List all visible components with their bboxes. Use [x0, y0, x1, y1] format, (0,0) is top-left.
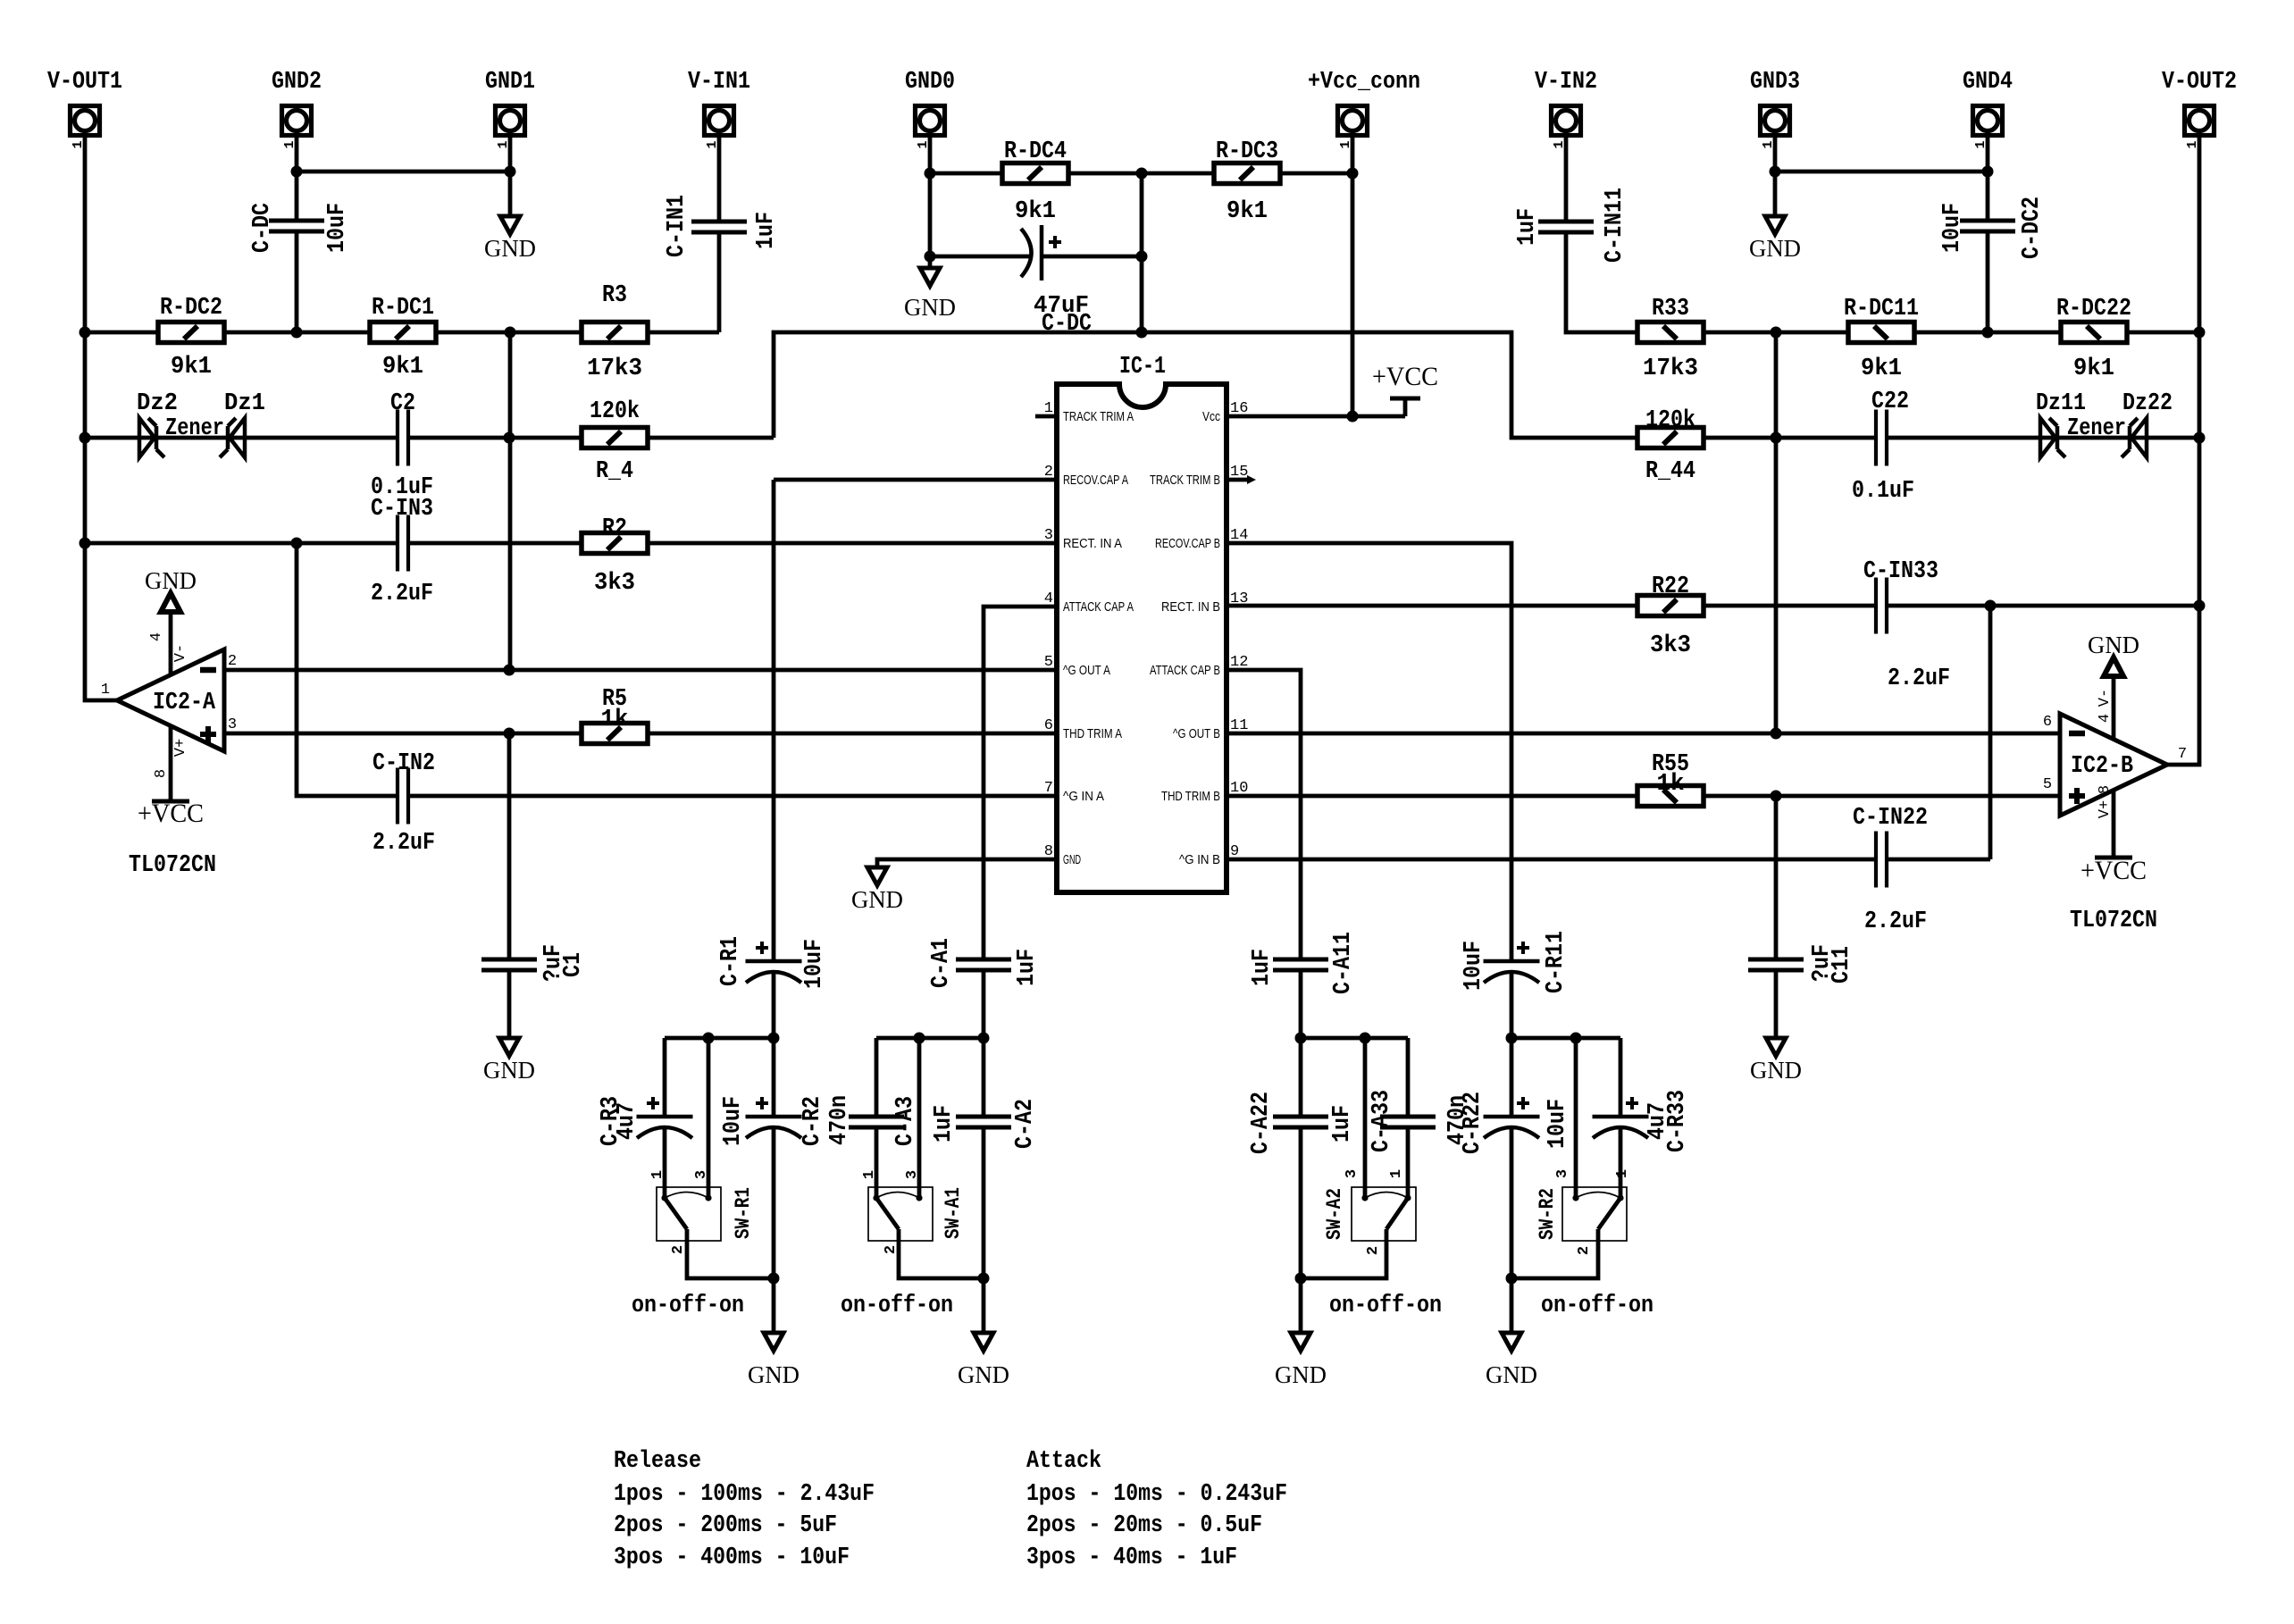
svg-text:R-DC1: R-DC1	[372, 295, 434, 322]
junction at 1278,372	[1136, 327, 1148, 339]
label Zener right	[2067, 415, 2126, 442]
note Attack 1pos	[1026, 1481, 1287, 1508]
label R-DC1	[372, 295, 434, 322]
capacitor C-A22	[1273, 1117, 1328, 1127]
wire zener row right	[1887, 436, 2199, 440]
value R-DC11	[1861, 356, 1902, 382]
svg-text:3: 3	[1044, 527, 1053, 544]
pin 1 SW-R2	[1614, 1169, 1631, 1178]
svg-text:2: 2	[883, 1245, 900, 1254]
wire SW-R2 top row	[1511, 1036, 1620, 1041]
svg-text:SW-A2: SW-A2	[1323, 1188, 1346, 1240]
ground pin8	[851, 867, 903, 913]
svg-text:TRACK TRIM A: TRACK TRIM A	[1063, 409, 1134, 424]
wire pin14 recovery B	[1227, 543, 1511, 1038]
value R_44	[1645, 458, 1695, 485]
wire pin16 Vcc row	[1227, 400, 1405, 416]
svg-text:13: 13	[1230, 590, 1248, 607]
resistor R_44	[1637, 428, 1704, 448]
value C-A33 470n	[1444, 1095, 1471, 1145]
junction at 1456,1162	[1295, 1033, 1307, 1044]
junction at 866,1162	[768, 1033, 780, 1044]
resistor R5	[582, 724, 648, 744]
pin 6 IC2-B	[2043, 714, 2052, 731]
pin 1 SW-A2	[1388, 1169, 1405, 1178]
label IC2-A	[153, 690, 216, 716]
junction at 2228,678	[1985, 600, 1997, 612]
svg-text:TRACK TRIM B: TRACK TRIM B	[1150, 473, 1220, 488]
svg-text:Zener: Zener	[165, 415, 224, 442]
pin 1 SW-A1	[861, 1170, 878, 1179]
ground SW-R1	[748, 1333, 800, 1388]
resistor R33	[1637, 322, 1704, 343]
wire C-IN11 to R33	[1566, 230, 1637, 332]
label R_4	[590, 398, 640, 425]
svg-text:C-DC2: C-DC2	[2019, 197, 2046, 259]
value R-DC1	[382, 354, 423, 381]
value R55	[1657, 771, 1685, 798]
svg-text:1uF: 1uF	[931, 1105, 958, 1143]
switch SW-A2	[1352, 1187, 1416, 1241]
pin name ^G IN B	[1179, 852, 1220, 867]
svg-text:1: 1	[1614, 1169, 1631, 1178]
wire C-R22 col	[1510, 1038, 1514, 1333]
ground SW-A2	[1275, 1333, 1327, 1388]
junction at 95,372	[80, 327, 91, 339]
svg-text:14: 14	[1230, 527, 1248, 544]
svg-text:C11: C11	[1829, 946, 1855, 984]
capacitor C-IN22	[1876, 832, 1887, 888]
svg-text:1pos - 10ms - 0.243uF: 1pos - 10ms - 0.243uF	[1026, 1481, 1287, 1508]
switch SW-A1	[868, 1187, 933, 1241]
label TL072CN right	[2070, 908, 2157, 934]
junction at 571,372	[505, 327, 516, 339]
junction at 2225,372	[1982, 327, 1994, 339]
svg-text:IC2-B: IC2-B	[2071, 753, 2133, 780]
value R22	[1650, 632, 1691, 659]
svg-text:RECT. IN B: RECT. IN B	[1161, 599, 1220, 615]
svg-text:C-DC: C-DC	[249, 203, 276, 253]
svg-text:Dz2: Dz2	[137, 390, 178, 417]
capacitor C11	[1748, 959, 1804, 970]
svg-text:C2: C2	[390, 390, 415, 417]
svg-text:3pos - 40ms - 1uF: 3pos - 40ms - 1uF	[1026, 1544, 1237, 1571]
resistor R3	[582, 322, 648, 343]
svg-text:9k1: 9k1	[1015, 198, 1056, 225]
junction at 2462,678	[2194, 600, 2206, 612]
junction at 1692,1431	[1506, 1273, 1518, 1285]
wire GND3 stub	[1773, 137, 1778, 216]
label IC2-B	[2071, 753, 2133, 780]
svg-text:Vcc: Vcc	[1202, 409, 1220, 424]
op-amp IC2-A plus	[200, 726, 216, 742]
svg-text:SW-A1: SW-A1	[942, 1187, 965, 1239]
label IC-1	[1119, 354, 1166, 381]
capacitor C-IN3	[398, 515, 408, 572]
svg-text:Release: Release	[614, 1448, 701, 1475]
wire 47uF row	[930, 255, 1142, 259]
pin 5 IC2-B	[2043, 776, 2052, 793]
svg-text:16: 16	[1230, 400, 1248, 417]
pin name GND	[1063, 852, 1081, 867]
svg-text:V-OUT2: V-OUT2	[2162, 69, 2237, 96]
wire pin12 attack cap B	[1227, 670, 1301, 1038]
svg-text:120k: 120k	[1645, 407, 1695, 434]
wire GND0 stub	[928, 137, 933, 268]
svg-text:8: 8	[153, 769, 170, 778]
capacitor C-IN33	[1876, 578, 1887, 634]
svg-text:ATTACK CAP A: ATTACK CAP A	[1063, 599, 1134, 615]
svg-text:3k3: 3k3	[1650, 632, 1691, 659]
value C-R3 4u7	[614, 1102, 640, 1140]
junction at 2462,372	[2194, 327, 2206, 339]
svg-text:C-R33: C-R33	[1664, 1090, 1691, 1152]
wire GND2-GND1 tie	[297, 170, 510, 174]
wire row R-DC2/R-DC1/R3	[85, 331, 719, 335]
note Release 3pos	[614, 1544, 850, 1571]
svg-text:V-: V-	[2097, 689, 2114, 707]
svg-text:10uF: 10uF	[801, 939, 828, 989]
junction at 1041,287	[925, 251, 936, 263]
svg-text:3k3: 3k3	[594, 570, 635, 597]
pin number 1 IC	[1044, 400, 1053, 417]
connector pad V-OUT2	[2185, 106, 2214, 149]
svg-text:1uF: 1uF	[1014, 949, 1041, 986]
svg-text:2pos - 200ms - 5uF: 2pos - 200ms - 5uF	[614, 1512, 837, 1539]
wire C-A3 branch	[875, 1038, 879, 1198]
svg-text:0.1uF: 0.1uF	[1852, 478, 1914, 505]
wire pin4 attack col	[984, 607, 1057, 1038]
capacitor C-IN2	[398, 768, 408, 825]
value C-A11 1uF	[1249, 949, 1276, 986]
svg-text:C-R2: C-R2	[800, 1096, 826, 1146]
wire C-IN2 branch	[297, 543, 398, 796]
svg-text:9k1: 9k1	[382, 354, 423, 381]
label C-IN22	[1853, 805, 1928, 832]
pin name ^G OUT A	[1063, 663, 1110, 678]
svg-text:3: 3	[693, 1170, 710, 1179]
svg-text:C-A33: C-A33	[1369, 1090, 1395, 1152]
junction at 1278,194	[1136, 168, 1148, 180]
svg-text:GND0: GND0	[905, 69, 955, 96]
value C-R1 10uF	[801, 939, 828, 989]
pin 8 IC2-B	[2097, 785, 2114, 794]
wire right node col lower	[1774, 796, 1779, 1038]
label R22	[1652, 573, 1689, 600]
capacitor C1	[481, 959, 537, 970]
pin 2 SW-R1	[670, 1245, 687, 1254]
label +Vcc_conn	[1308, 69, 1420, 96]
junction at 570,750	[504, 665, 515, 676]
svg-text:12: 12	[1230, 654, 1248, 671]
label C-A11	[1330, 932, 1357, 994]
svg-text:V+: V+	[2097, 800, 2114, 818]
capacitor C-A3	[849, 1117, 904, 1127]
pin 3 SW-A2	[1344, 1169, 1360, 1178]
junction at 1278,287	[1136, 251, 1148, 263]
pin number 8 IC	[1044, 843, 1053, 860]
note Release 2pos	[614, 1512, 837, 1539]
switch SW-R1	[657, 1187, 721, 1241]
wire C-R33 branch	[1619, 1038, 1623, 1198]
resistor R-DC4	[1002, 163, 1068, 184]
svg-text:GND: GND	[1749, 235, 1801, 262]
svg-text:11: 11	[1230, 717, 1248, 734]
svg-text:Dz1: Dz1	[224, 390, 265, 417]
resistor R_4	[582, 428, 648, 448]
pin V+ IC2-A	[172, 739, 189, 757]
pin 1 IC2-A	[101, 682, 110, 699]
note Attack 3pos	[1026, 1544, 1237, 1571]
svg-text:1: 1	[649, 1170, 666, 1179]
label SW-A2	[1323, 1188, 1346, 1240]
capacitor C2	[398, 410, 408, 466]
wire GND3-GND4 tie	[1775, 170, 1988, 174]
pin number 7 IC	[1044, 780, 1053, 797]
resistor R-DC3	[1214, 163, 1280, 184]
label GND0	[905, 69, 955, 96]
wire SW-A1 lever out	[899, 1229, 984, 1278]
wire pin5 row	[224, 668, 1057, 673]
resistor R-DC22	[2061, 322, 2127, 343]
svg-text:Dz22: Dz22	[2122, 390, 2173, 417]
connector pad +Vcc_conn	[1338, 106, 1368, 149]
junction at 1988,372	[1771, 327, 1782, 339]
svg-text:GND: GND	[145, 567, 197, 594]
svg-text:GND: GND	[1486, 1361, 1537, 1388]
pin 15 stub IC	[1227, 475, 1256, 484]
resistor R22	[1637, 596, 1704, 616]
label C-R3	[598, 1096, 624, 1146]
pin number 12 IC	[1230, 654, 1248, 671]
svg-text:^G IN B: ^G IN B	[1179, 852, 1220, 867]
svg-text:1: 1	[1388, 1169, 1405, 1178]
label V-IN2	[1535, 69, 1597, 96]
note Release 1pos	[614, 1481, 875, 1508]
label C-R33	[1664, 1090, 1691, 1152]
junction at 95,608	[80, 538, 91, 549]
ground GND1	[484, 216, 536, 262]
svg-text:ATTACK CAP B: ATTACK CAP B	[1150, 663, 1220, 678]
wire SW-A1 top row	[876, 1036, 984, 1041]
svg-text:2.2uF: 2.2uF	[371, 581, 433, 607]
svg-text:2: 2	[228, 653, 237, 670]
svg-text:SW-R2: SW-R2	[1536, 1188, 1559, 1240]
svg-text:GND: GND	[1063, 852, 1081, 867]
svg-text:C22: C22	[1871, 389, 1909, 415]
svg-text:GND: GND	[2088, 632, 2139, 658]
wire GND1 stub	[508, 137, 513, 216]
wire node col x571	[508, 332, 513, 670]
wire SW-R1 pin3 branch	[707, 1038, 711, 1198]
label C-IN33	[1863, 558, 1938, 585]
label Dz22	[2122, 390, 2173, 417]
value R-DC3	[1227, 198, 1268, 225]
pin name RECT. IN B	[1161, 599, 1220, 615]
capacitor C-R2	[746, 1097, 802, 1138]
capacitor C-DC	[269, 221, 324, 231]
value C-A2 1uF	[931, 1105, 958, 1143]
svg-text:10uF: 10uF	[720, 1096, 747, 1146]
junction at 1692,1162	[1506, 1033, 1518, 1044]
wire SW-R1 lever out	[687, 1229, 774, 1278]
svg-text:V-IN1: V-IN1	[688, 69, 750, 96]
value R2	[594, 570, 635, 597]
svg-text:R_44: R_44	[1645, 458, 1695, 485]
svg-text:C-A11: C-A11	[1330, 932, 1357, 994]
junction at 866,1431	[768, 1273, 780, 1285]
svg-text:TL072CN: TL072CN	[2070, 908, 2157, 934]
svg-text:6: 6	[1044, 717, 1053, 734]
svg-text:GND4: GND4	[1963, 69, 2013, 96]
junction at 1764,1162	[1570, 1033, 1582, 1044]
wire GND2 stub	[295, 137, 299, 222]
label R-DC2	[160, 295, 222, 322]
label R_44	[1645, 407, 1695, 434]
capacitor C-A2	[956, 1117, 1011, 1127]
svg-text:V-OUT1: V-OUT1	[47, 69, 122, 96]
pin name TRACK TRIM A	[1063, 409, 1134, 424]
wire C-A2 col	[982, 1038, 986, 1333]
pin name RECOV.CAP A	[1063, 473, 1128, 488]
wire SW-A2 lever out	[1301, 1229, 1386, 1278]
connector pad GND4	[1973, 106, 2003, 149]
wire SW-R1 top row	[665, 1036, 774, 1041]
svg-text:IC2-A: IC2-A	[153, 690, 216, 716]
label Dz11	[2036, 390, 2086, 417]
value C-IN3 2.2uF	[371, 581, 433, 607]
value R3	[587, 356, 642, 382]
svg-text:10uF: 10uF	[1545, 1099, 1571, 1149]
label on-off-on SW-R1	[632, 1293, 744, 1319]
junction at 1988,821	[1771, 728, 1782, 740]
svg-text:1pos - 100ms - 2.43uF: 1pos - 100ms - 2.43uF	[614, 1481, 875, 1508]
svg-text:+Vcc_conn: +Vcc_conn	[1308, 69, 1420, 96]
svg-text:9k1: 9k1	[1227, 198, 1268, 225]
svg-text:R_4: R_4	[596, 458, 633, 485]
junction at 1514,466	[1347, 411, 1359, 423]
svg-text:1: 1	[861, 1170, 878, 1179]
pin name THD TRIM A	[1063, 726, 1122, 741]
label R2	[602, 515, 627, 542]
wire C-R2 col	[772, 1038, 776, 1333]
capacitor C-DC 47uF	[1021, 225, 1061, 280]
svg-text:1uF: 1uF	[1329, 1105, 1356, 1143]
value R-DC22	[2073, 356, 2114, 382]
value C-A1 1uF	[1014, 949, 1041, 986]
svg-text:120k: 120k	[590, 398, 640, 425]
wire +Vcc_conn col	[1351, 137, 1355, 416]
svg-text:10: 10	[1230, 780, 1248, 797]
junction at 793,1162	[703, 1033, 715, 1044]
svg-text:Attack: Attack	[1026, 1448, 1101, 1475]
wire bias bus	[774, 332, 1637, 438]
switch SW-R2	[1562, 1187, 1627, 1241]
svg-text:+VCC: +VCC	[138, 799, 204, 828]
label R3	[602, 282, 627, 309]
label C-DC	[249, 203, 276, 253]
pin number 2 IC	[1044, 464, 1053, 481]
svg-text:9k1: 9k1	[171, 354, 212, 381]
junction at 1041,194	[925, 168, 936, 180]
svg-text:2.2uF: 2.2uF	[1864, 908, 1927, 935]
capacitor C22	[1876, 410, 1887, 466]
label C-A2	[1012, 1099, 1039, 1149]
wire SW-R2 lever out	[1511, 1229, 1598, 1278]
capacitor C-R11	[1484, 942, 1540, 983]
label C-DC mid	[1042, 311, 1092, 338]
svg-text:2: 2	[1044, 464, 1053, 481]
pin number 6 IC	[1044, 717, 1053, 734]
value C1 ?uF	[540, 944, 567, 982]
svg-text:C-IN2: C-IN2	[373, 750, 435, 777]
label R-DC11	[1844, 296, 1919, 322]
op-amp IC2-A body	[117, 649, 224, 751]
zener diode Dz2	[139, 418, 164, 457]
label C-R22	[1460, 1092, 1486, 1154]
power +VCC IC2-A	[138, 725, 204, 828]
wire V-OUT1 net	[85, 137, 117, 700]
svg-text:R3: R3	[602, 282, 627, 309]
pin number 10 IC	[1230, 780, 1248, 797]
svg-text:V-IN2: V-IN2	[1535, 69, 1597, 96]
value C-IN33 2.2uF	[1888, 666, 1950, 692]
label R-DC4	[1004, 138, 1067, 165]
connector pad GND2	[282, 106, 312, 149]
label C1	[560, 952, 587, 977]
svg-text:15: 15	[1230, 464, 1248, 481]
value R5	[601, 707, 629, 733]
svg-text:C-A1: C-A1	[928, 938, 955, 988]
pin 2 SW-A2	[1365, 1246, 1382, 1255]
pin 8 IC2-A	[153, 769, 170, 778]
junction at 1456,1431	[1295, 1273, 1307, 1285]
pin number 5 IC	[1044, 654, 1053, 671]
svg-text:C-IN33: C-IN33	[1863, 558, 1938, 585]
wire V-OUT2 net	[2167, 137, 2199, 765]
svg-text:1: 1	[101, 682, 110, 699]
capacitor C-A33	[1380, 1117, 1436, 1127]
wire C-IN1 to R3 node	[717, 230, 722, 332]
svg-text:2: 2	[1576, 1246, 1593, 1255]
wire GND2 to C-DC lower	[295, 230, 299, 332]
wire SW-A2 top row	[1301, 1036, 1408, 1041]
value C-A22 1uF	[1329, 1105, 1356, 1143]
label C-A1	[928, 938, 955, 988]
wire C-R3 branch	[663, 1038, 667, 1198]
svg-text:R-DC2: R-DC2	[160, 295, 222, 322]
svg-text:4u7: 4u7	[614, 1102, 640, 1140]
label R33	[1652, 296, 1689, 322]
svg-text:on-off-on: on-off-on	[632, 1293, 744, 1319]
value C-R11 10uF	[1461, 941, 1487, 991]
label C-IN11	[1602, 188, 1628, 263]
label Dz2	[137, 390, 178, 417]
svg-text:3pos - 400ms - 10uF: 3pos - 400ms - 10uF	[614, 1544, 850, 1571]
label TL072CN left	[129, 852, 216, 879]
pin number 9 IC	[1230, 843, 1239, 860]
value C22 0.1uF	[1852, 478, 1914, 505]
value R_4	[596, 458, 633, 485]
label on-off-on SW-A1	[841, 1293, 953, 1319]
value C-IN1 1uF	[753, 212, 780, 249]
ground IC2-B	[2088, 632, 2139, 739]
svg-text:R-DC22: R-DC22	[2056, 296, 2131, 322]
svg-text:on-off-on: on-off-on	[841, 1293, 953, 1319]
svg-text:3: 3	[904, 1170, 921, 1179]
pin 4 IC2-B	[2097, 714, 2114, 723]
pin 2 SW-A1	[883, 1245, 900, 1254]
